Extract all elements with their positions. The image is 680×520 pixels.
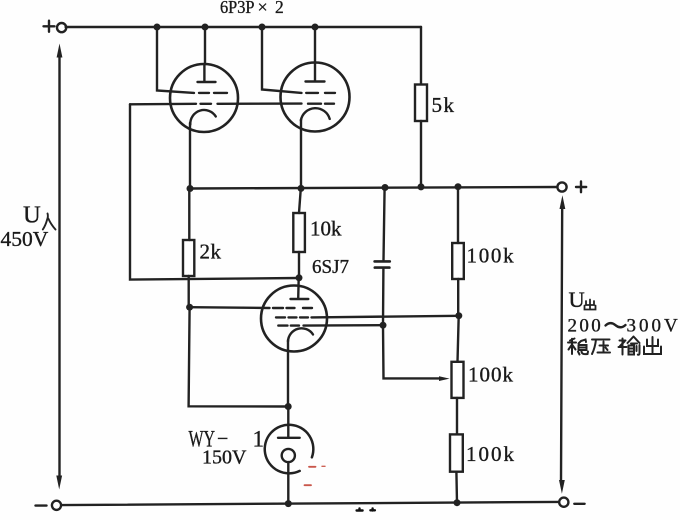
label CJK out subscript [585, 300, 596, 310]
svg-text:6P3P: 6P3P [220, 0, 255, 17]
node plate 6SJ7 [296, 274, 303, 281]
wire V2 cathode lead [300, 120, 302, 189]
tube V1 plate [198, 64, 216, 82]
tube V2 control grid dashes [308, 102, 334, 104]
tube V1 control grid dashes [201, 103, 212, 105]
svg-text:100k: 100k [468, 362, 514, 386]
svg-text:1: 1 [253, 427, 265, 452]
node cathode V2 [298, 185, 305, 192]
svg-text:6SJ7: 6SJ7 [312, 256, 349, 278]
tube V2 plate [306, 63, 325, 82]
label WY-1 [189, 427, 265, 452]
wire wiper [383, 325, 440, 378]
svg-text:300V: 300V [627, 316, 680, 337]
minus sign right [574, 503, 584, 505]
svg-text:100k: 100k [466, 442, 516, 466]
svg-text:100k: 100k [467, 244, 516, 268]
node WY-1 top [285, 403, 292, 410]
stray mark 1 [357, 509, 363, 511]
tube V3 cathode [288, 328, 313, 341]
node divider mid [455, 312, 462, 319]
node A2 [202, 24, 209, 31]
wire pot bottom lead [456, 398, 458, 435]
wire cathode bus [190, 187, 561, 189]
tube V2 screen grid dashes [306, 92, 335, 94]
label 100k pot [468, 362, 514, 386]
node screen ref [186, 304, 193, 311]
capacitor C1 top lead [384, 188, 385, 261]
svg-text:10k: 10k [310, 217, 342, 241]
label CJK transport [619, 337, 640, 355]
plus sign output [576, 182, 586, 193]
tube V3 plate [291, 278, 309, 299]
wire control grids (V1 to V2) [130, 102, 302, 105]
capacitor C1 bottom lead [382, 269, 385, 325]
red mark 1 [309, 466, 316, 468]
arrowhead U-out bottom [559, 480, 565, 494]
wire 2k bottom lead [187, 276, 189, 307]
svg-text:2: 2 [275, 0, 284, 17]
resistor 5k [415, 85, 427, 122]
minus sign left [36, 504, 47, 506]
tube V3 grid1 dashes [273, 307, 312, 309]
tube V3 grid2 dashes [276, 316, 308, 318]
node WY-1 bottom [285, 500, 292, 507]
tube V3 grid3 dashes [278, 324, 299, 326]
label U-out [569, 287, 585, 312]
label CJK stable [568, 339, 588, 355]
label 150V [202, 447, 247, 469]
wire 10k top lead [299, 188, 301, 213]
red mark 2 [322, 465, 325, 467]
wire 5k bottom lead [420, 121, 422, 187]
wire 2k top lead [188, 189, 190, 241]
label 10k [310, 217, 342, 241]
label CJK press [592, 340, 610, 355]
tube V2 6P3P envelope [281, 63, 350, 132]
capacitor C1 [375, 261, 390, 267]
label CJK enter subscript [43, 214, 56, 230]
wire grid2 to divider [312, 316, 459, 318]
resistor 2k [183, 240, 194, 276]
svg-text:2k: 2k [200, 240, 222, 264]
label 200~300V [568, 316, 680, 337]
svg-text:150V: 150V [202, 447, 247, 469]
resistor 10k [293, 213, 305, 252]
label 2k [200, 240, 222, 264]
tube V1 cathode [190, 110, 216, 125]
wire grid3 to cap [304, 324, 384, 327]
terminal + output (right) [557, 182, 566, 191]
wire 100k upper bottom lead [457, 279, 459, 316]
wire grid drive vertical [130, 104, 299, 279]
svg-text:U: U [569, 287, 585, 312]
arrowhead U-in bottom [56, 476, 62, 490]
svg-text:U: U [23, 202, 41, 229]
tube WY-1 cathode [282, 449, 295, 462]
tube V3 6SJ7 envelope [261, 286, 327, 352]
arrow line U-out [561, 204, 562, 482]
wire plate V1 [204, 27, 206, 64]
node A1 [154, 24, 161, 31]
node grid3 cap [380, 322, 387, 329]
label CJK out [644, 337, 661, 354]
svg-text:×: × [258, 0, 268, 17]
tube V1 6P3P envelope [170, 64, 238, 132]
terminal + input (top left) [57, 23, 66, 32]
wire screen grid V2 [262, 27, 302, 93]
label 100k upper [467, 244, 516, 268]
wire screen grid V1 [157, 27, 194, 93]
wire 100k upper top lead [457, 187, 459, 243]
wire to 5k [420, 27, 422, 85]
svg-text:5k: 5k [432, 93, 456, 117]
node 5k bottom [418, 183, 425, 190]
stray mark 2 [370, 509, 375, 511]
plus sign input [44, 21, 55, 32]
wire top rail [66, 26, 421, 28]
node cathode V1 [187, 185, 194, 192]
svg-text:450V: 450V [1, 227, 49, 251]
node A3 [259, 24, 266, 31]
wire ref vertical [189, 307, 288, 406]
tilde in 200~300V [606, 323, 626, 327]
tube V1 screen grid dashes [199, 92, 227, 94]
arrowhead U-in top [57, 44, 63, 58]
arrow wiper [439, 376, 450, 381]
tube V2 cathode [301, 108, 330, 120]
wire V3 cathode lead [287, 340, 289, 407]
red mark 3 [305, 484, 312, 486]
potentiometer 100k [452, 362, 464, 398]
arrow line U-in [58, 52, 60, 480]
wire 100k lower bottom lead [455, 472, 458, 503]
wire WY-1 cathode lead [287, 462, 289, 504]
resistor 100k lower [450, 434, 463, 471]
svg-text:200: 200 [568, 316, 604, 337]
label 6SJ7 [312, 256, 349, 278]
node cap top [382, 184, 389, 191]
wire plate V2 [314, 27, 316, 63]
arrowhead U-out top [560, 195, 566, 209]
node A4 [312, 24, 319, 31]
wire 10k bottom lead [298, 252, 300, 278]
node divider top [455, 183, 462, 190]
label 450V [1, 227, 49, 251]
tube WY-1 envelope [265, 425, 314, 474]
wire V1 cathode lead [189, 123, 191, 189]
terminal - output (bottom right) [559, 498, 568, 507]
wire bottom rail [61, 502, 559, 505]
node divider bottom [454, 499, 461, 506]
label 5k [432, 93, 456, 117]
label 100k lower [466, 442, 516, 466]
wire pot top lead [458, 316, 459, 362]
label U-in [23, 202, 41, 229]
label 6P3P×2 [220, 0, 284, 17]
terminal - output (bottom left) [52, 501, 61, 510]
resistor 100k upper [452, 243, 464, 279]
tube WY-1 anode [278, 407, 300, 438]
wire 6SJ7 grid1 [190, 306, 270, 309]
